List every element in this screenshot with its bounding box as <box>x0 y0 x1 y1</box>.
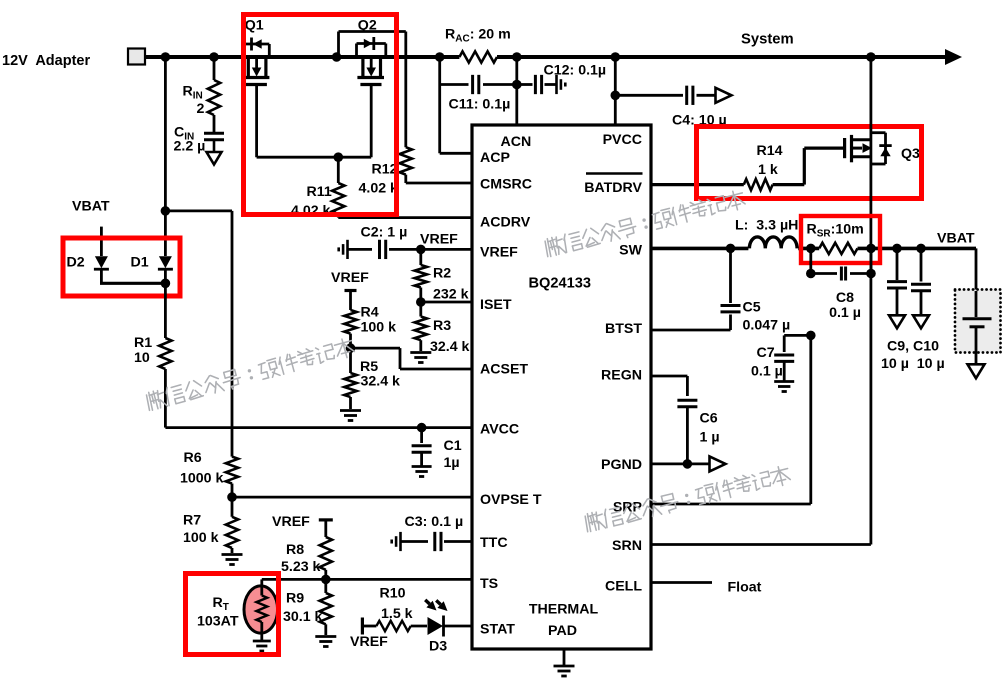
node: RSR right junction <box>866 244 876 254</box>
svg-text:30.1 k: 30.1 k <box>283 609 323 625</box>
diode: Q3 body diode <box>872 131 886 134</box>
svg-text:D3: D3 <box>429 639 447 655</box>
ground: below R3 <box>410 351 431 354</box>
ground: below C1 <box>412 465 432 468</box>
svg-text:C11: 0.1µ: C11: 0.1µ <box>449 97 511 113</box>
wire: PGND <box>651 462 710 465</box>
svg-text:Q1: Q1 <box>245 17 264 33</box>
watermark 1 <box>147 339 355 410</box>
red box around D1 D2 <box>63 238 180 296</box>
capacitor C11 <box>471 75 474 94</box>
svg-text:RSR:10m: RSR:10m <box>807 222 864 240</box>
transistor Q1 body <box>247 57 250 78</box>
node: C8 right <box>866 269 876 279</box>
capacitor C2 <box>346 240 349 259</box>
node: VBAT junction <box>161 206 171 216</box>
terminal VREF for R4 <box>345 289 357 292</box>
svg-text:1 µ: 1 µ <box>700 430 720 446</box>
svg-text:C9, C10: C9, C10 <box>887 339 939 355</box>
svg-text:PAD: PAD <box>548 623 577 639</box>
svg-text:0.1 µ: 0.1 µ <box>829 305 861 321</box>
node: C10 junction <box>916 244 926 254</box>
resistor R4 <box>344 310 356 334</box>
wire: System to SRN rail <box>870 57 873 545</box>
resistor R5 <box>349 348 352 373</box>
svg-text:ACN: ACN <box>501 134 532 150</box>
svg-text:10 µ 10 µ: 10 µ 10 µ <box>881 356 945 372</box>
wire: D1 to bottom node <box>164 269 167 283</box>
svg-text:ACSET: ACSET <box>480 361 528 377</box>
svg-text:100 k: 100 k <box>183 530 219 546</box>
node: R6-R7 OVPSET junction <box>227 492 237 502</box>
svg-text:AVCC: AVCC <box>480 422 519 438</box>
ground: C10 open triangle <box>913 315 929 328</box>
wire: VBAT to battery <box>975 248 978 291</box>
svg-text:VREF: VREF <box>480 245 518 261</box>
node: PVCC junction <box>611 52 621 62</box>
svg-text:OVPSE T: OVPSE T <box>480 492 542 508</box>
wire: C7 stub <box>784 334 811 337</box>
wire: ACP <box>440 152 472 155</box>
svg-text:R7: R7 <box>183 513 201 529</box>
ground: thermal pad <box>563 649 566 666</box>
battery cell symbol <box>975 291 978 317</box>
svg-text:32.4 k: 32.4 k <box>361 374 401 390</box>
svg-text:System: System <box>741 32 794 48</box>
wire: C11 rail <box>440 83 469 86</box>
svg-text:RAC: 20 m: RAC: 20 m <box>445 27 511 45</box>
svg-text:0.047 µ: 0.047 µ <box>743 318 791 334</box>
arrow: C4 to system rtn <box>716 88 732 103</box>
transistor Q3 <box>843 138 846 158</box>
op-amp U1: BQ24133 charger IC outline <box>472 125 651 649</box>
wire: C8 right leg <box>870 248 873 273</box>
ground: C9 open triangle <box>889 315 905 328</box>
svg-text:THERMAL: THERMAL <box>529 602 599 618</box>
svg-text:ACDRV: ACDRV <box>480 214 531 230</box>
resistor R12 <box>400 147 412 174</box>
wire: SRN <box>651 543 871 546</box>
node: RIN top junction <box>209 52 219 62</box>
svg-text:L: 3.3 µH: L: 3.3 µH <box>735 218 798 234</box>
svg-text:R12: R12 <box>372 162 398 178</box>
wire: Q1-Q2 gate bus <box>257 156 372 159</box>
capacitor C8 <box>811 272 837 275</box>
resistor R14 <box>744 179 773 190</box>
red box around R14 Q3 <box>697 127 922 199</box>
capacitor C12 <box>517 83 533 86</box>
svg-text:1µ: 1µ <box>444 455 460 471</box>
wire: ACN drop <box>515 57 518 125</box>
svg-text:Float: Float <box>728 580 762 596</box>
svg-text:0.1 µ: 0.1 µ <box>751 364 783 380</box>
resistor R1 <box>164 283 167 338</box>
ground: below R5 <box>340 409 361 412</box>
svg-text:VREF: VREF <box>350 634 388 650</box>
svg-text:R1: R1 <box>134 335 152 351</box>
svg-text:C8: C8 <box>836 290 854 306</box>
node: C4 junction <box>611 91 621 101</box>
ground: C12 mini bars <box>555 75 558 94</box>
wire: D2 to junction <box>100 269 103 283</box>
capacitor C1 <box>420 428 423 443</box>
node: C1 junction <box>417 423 427 433</box>
ground: below RT <box>253 640 271 643</box>
wire: RT drop <box>260 579 263 587</box>
battery pack box <box>955 290 1001 353</box>
svg-text:VBAT: VBAT <box>937 231 975 247</box>
wire: TS <box>262 578 472 581</box>
resistor RAC <box>459 51 497 62</box>
wire: VBAT node to R6 branch <box>165 209 232 212</box>
svg-text:10: 10 <box>134 350 150 366</box>
svg-text:1.5 k: 1.5 k <box>381 606 413 622</box>
svg-text:STAT: STAT <box>480 622 515 638</box>
node: SW-C5 junction <box>726 244 736 254</box>
svg-text:C3: 0.1 µ: C3: 0.1 µ <box>405 514 464 530</box>
red box around RSR <box>801 216 880 263</box>
capacitor C3 <box>399 532 402 551</box>
svg-text:C6: C6 <box>700 411 718 427</box>
svg-text:R10: R10 <box>380 586 406 602</box>
node: TS junction <box>321 575 331 585</box>
thermistor RT <box>244 586 278 633</box>
svg-text:R11: R11 <box>307 184 332 200</box>
svg-text:BATDRV: BATDRV <box>584 180 642 196</box>
svg-text:BQ24133: BQ24133 <box>529 276 591 292</box>
resistor R11 <box>337 157 340 183</box>
svg-text:C1: C1 <box>444 438 462 454</box>
svg-text:100 k: 100 k <box>361 319 397 335</box>
wire: OVPSET <box>232 496 472 499</box>
ground: below R9 <box>315 635 336 638</box>
resistor R3 <box>419 302 422 317</box>
svg-text:VREF: VREF <box>420 231 458 247</box>
svg-text:32.4 k: 32.4 k <box>430 339 470 355</box>
svg-text:1 k: 1 k <box>758 162 778 178</box>
svg-text:R6: R6 <box>184 450 202 466</box>
capacitor C10 <box>920 248 923 281</box>
svg-text:VBAT: VBAT <box>72 199 110 215</box>
wire: VBAT stub to D2 <box>100 227 103 256</box>
red box around Q1 Q2 <box>244 15 397 215</box>
node: VREF-R2 junction <box>416 245 426 255</box>
svg-text:CMSRC: CMSRC <box>480 176 532 192</box>
node: R2-R3 ISET junction <box>416 297 426 307</box>
wire: PVCC drop <box>614 57 617 125</box>
resistor RSR <box>819 243 857 254</box>
wire: REGN <box>651 375 687 378</box>
node: RSR left junction <box>806 244 816 254</box>
svg-text:PVCC: PVCC <box>603 132 642 148</box>
wire: 12V adapter trunk to System <box>137 55 459 59</box>
node: ACP/C11 junction <box>435 52 445 62</box>
svg-text:SW: SW <box>619 243 642 259</box>
wire: BATDRV to R14 <box>651 183 744 186</box>
svg-text:C12: 0.1µ: C12: 0.1µ <box>544 63 607 79</box>
svg-text:103AT: 103AT <box>197 614 239 630</box>
node: R4-R5 junction <box>346 343 356 353</box>
wire: BTST <box>651 329 731 332</box>
svg-text:VREF: VREF <box>331 270 369 286</box>
wire: Q2 drain loop to R12 <box>337 32 340 58</box>
node: C8 left <box>806 269 816 279</box>
svg-text:TTC: TTC <box>480 535 508 551</box>
resistor R6 <box>226 457 238 484</box>
svg-text:C7: C7 <box>757 345 775 361</box>
arrows: LED light arrows <box>425 600 429 604</box>
svg-text:ISET: ISET <box>480 297 512 313</box>
node: C11-C12 junction <box>512 80 522 90</box>
svg-text:R8: R8 <box>286 542 304 558</box>
svg-text:2: 2 <box>197 101 205 117</box>
svg-text:D1: D1 <box>131 255 149 271</box>
wire: adapter to VBAT node <box>164 57 167 211</box>
resistor R7 <box>231 497 234 517</box>
terminal: 12V adapter input pad <box>128 49 145 65</box>
node: C9 junction <box>892 244 902 254</box>
ground: CIN open triangle <box>213 139 216 152</box>
svg-text:TS: TS <box>480 576 498 592</box>
capacitor C7 <box>774 354 794 357</box>
diode D1 <box>159 256 172 268</box>
svg-text:4.02 k: 4.02 k <box>359 181 399 197</box>
node: System/Q3 junction <box>866 52 876 62</box>
wire: CMSRC <box>406 182 472 185</box>
capacitor C6 <box>677 399 697 402</box>
wire: VBAT node to D1 <box>164 211 167 256</box>
resistor R10 <box>362 625 376 628</box>
ground: battery open triangle <box>968 364 985 378</box>
arrow: System output <box>945 49 962 65</box>
transistor Q2 body <box>361 57 364 78</box>
wire: SRP <box>651 503 811 506</box>
wire: R14 to Q3 gate <box>773 183 805 186</box>
svg-text:232 k: 232 k <box>433 287 469 303</box>
node: C12/ACN junction top <box>512 52 522 62</box>
inductor L <box>749 237 797 249</box>
resistor R8 <box>320 537 332 570</box>
svg-text:2.2 µ: 2.2 µ <box>174 139 206 155</box>
node: adapter-RIN junction <box>161 52 171 62</box>
diode D3 LED <box>428 617 444 635</box>
watermark 3 <box>585 467 790 532</box>
wire: SW to VBAT rail <box>651 247 748 251</box>
wire: ACDRV <box>338 216 472 219</box>
ground: below R7 <box>222 553 243 556</box>
red box around RT <box>186 574 279 655</box>
arrow: PGND rtn <box>710 456 726 471</box>
capacitor C4 <box>615 94 683 97</box>
resistor R2 <box>419 249 422 265</box>
resistor R9 <box>324 579 327 593</box>
node: C7 junction <box>806 331 816 341</box>
svg-text:CELL: CELL <box>605 579 642 595</box>
node: R11 top junction <box>334 152 344 162</box>
svg-text:Q3: Q3 <box>901 146 920 162</box>
wire: ISET <box>421 301 472 304</box>
wire: CELL <box>651 581 712 584</box>
watermark 2 <box>545 191 745 256</box>
capacitor C9 <box>896 248 899 280</box>
svg-text:D2: D2 <box>67 255 85 271</box>
svg-text:R9: R9 <box>286 591 304 607</box>
terminal VREF for R10 <box>361 618 364 635</box>
svg-text:BTST: BTST <box>605 321 642 337</box>
svg-text:VREF: VREF <box>272 514 310 530</box>
svg-text:C5: C5 <box>743 300 761 316</box>
node: Q1-Q2 junction <box>332 52 342 62</box>
svg-text:1000 k: 1000 k <box>180 471 224 487</box>
svg-text:REGN: REGN <box>601 368 642 384</box>
wire: ACSET jog <box>351 347 401 350</box>
svg-text:SRN: SRN <box>612 538 642 554</box>
node: C6-PGND junction <box>683 459 693 469</box>
terminal VREF for R8 <box>319 518 333 521</box>
svg-text:PGND: PGND <box>601 457 642 473</box>
wire: AVCC <box>165 426 472 429</box>
capacitor CIN <box>204 132 224 135</box>
diode: Q1 body diode <box>243 43 270 46</box>
capacitor C5 <box>729 248 732 303</box>
svg-text:ACP: ACP <box>480 150 510 166</box>
diode D2 <box>95 256 108 268</box>
node: D1-D2 junction <box>161 279 171 289</box>
wire: ACP drop <box>438 57 441 153</box>
svg-text:C2: 1 µ: C2: 1 µ <box>361 225 408 241</box>
diode: Q2 body diode <box>357 42 386 45</box>
resistor RIN <box>213 57 216 80</box>
svg-text:R3: R3 <box>433 318 451 334</box>
wire: C8 left leg <box>809 248 812 273</box>
svg-text:R4: R4 <box>361 305 379 321</box>
svg-text:R14: R14 <box>757 143 783 159</box>
svg-text:12V Adapter: 12V Adapter <box>2 53 90 69</box>
svg-text:R2: R2 <box>433 266 451 282</box>
ground: below C7 <box>774 380 794 383</box>
svg-text:5.23 k: 5.23 k <box>281 559 321 575</box>
